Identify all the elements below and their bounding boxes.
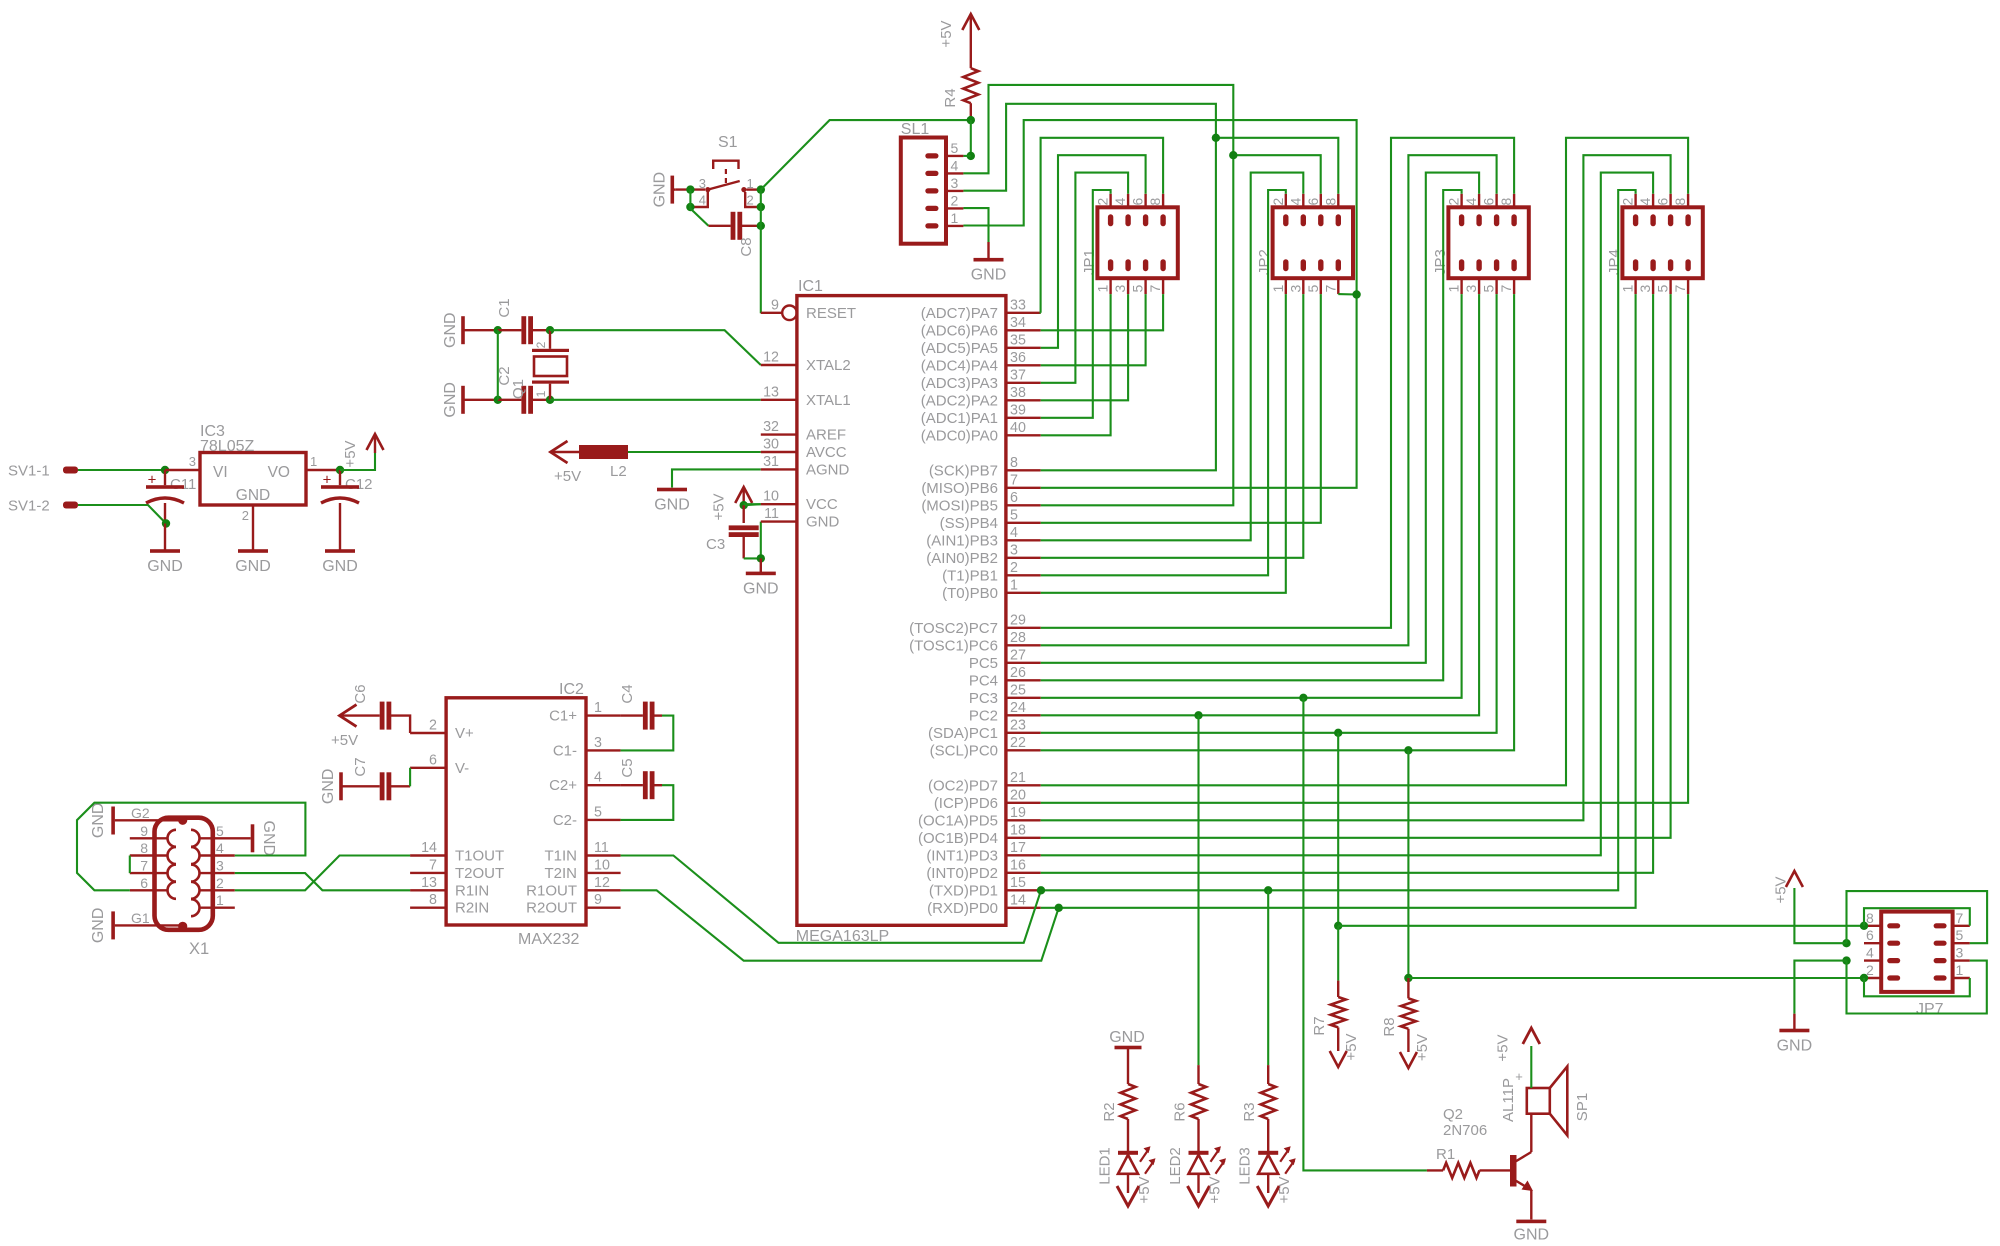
svg-text:(MISO)PB6: (MISO)PB6 <box>921 480 998 497</box>
wire C5 to C2- <box>621 785 674 820</box>
svg-text:(RXD)PD0: (RXD)PD0 <box>927 900 998 917</box>
node crystal top junction <box>546 326 554 334</box>
ground for C12 <box>325 549 355 553</box>
IC1 left pin leads <box>761 312 782 314</box>
svg-text:GND: GND <box>1514 1226 1550 1243</box>
svg-text:+5V: +5V <box>1772 876 1789 903</box>
node MISO junction <box>1352 290 1360 298</box>
resistor R4 <box>963 68 978 103</box>
wire PA7 to JP1 pin8 <box>1041 138 1164 313</box>
svg-text:29: 29 <box>1010 612 1026 628</box>
svg-text:+5V: +5V <box>938 20 955 47</box>
svg-text:GND: GND <box>90 803 107 839</box>
svg-text:2: 2 <box>1010 560 1018 576</box>
ground for G1 <box>111 911 115 939</box>
node S1 pin3 junction <box>686 185 694 193</box>
node SCK junction <box>1212 134 1220 142</box>
svg-text:(ADC4)PA4: (ADC4)PA4 <box>921 357 998 374</box>
node PC2 to LED2 junction <box>1194 711 1202 719</box>
svg-text:R2IN: R2IN <box>455 900 489 917</box>
wire L2 to AVCC <box>628 451 761 453</box>
wire PD4 to JP4 pin5 <box>1041 294 1671 838</box>
svg-text:4: 4 <box>216 840 224 856</box>
svg-text:C7: C7 <box>352 757 369 776</box>
node crystal-C2 left junction <box>494 396 502 404</box>
wire SL1 pin2 to ground <box>963 208 988 242</box>
svg-text:7: 7 <box>1498 285 1514 293</box>
wire SCK PB7 riser to JP2 pin8 <box>1041 138 1216 471</box>
svg-text:24: 24 <box>1010 700 1026 716</box>
svg-text:5: 5 <box>1481 285 1497 293</box>
svg-text:PC2: PC2 <box>969 707 998 724</box>
svg-text:1: 1 <box>216 892 224 908</box>
svg-text:(OC2)PD7: (OC2)PD7 <box>928 777 998 794</box>
wire PC1 to JP3 pin5 <box>1041 294 1497 733</box>
voltage regulator IC3 78L05Z <box>200 453 306 506</box>
svg-text:14: 14 <box>421 840 437 856</box>
wire PC3 to JP3 pin1 <box>1041 294 1462 698</box>
wire JP7 pin2-pin1 loop <box>1864 978 1970 996</box>
svg-text:T1OUT: T1OUT <box>455 848 504 865</box>
svg-text:5: 5 <box>1305 285 1321 293</box>
connector X1 DB9 <box>155 818 213 930</box>
svg-text:R1IN: R1IN <box>455 882 489 899</box>
wire SL1 pin5 stub <box>963 155 970 157</box>
svg-text:+5V: +5V <box>1136 1176 1153 1203</box>
svg-text:XTAL2: XTAL2 <box>806 357 851 374</box>
+5V arrow below R7 <box>1330 1051 1347 1067</box>
svg-text:(AIN1)PB3: (AIN1)PB3 <box>926 532 998 549</box>
wire JP7 pin6-pin5 loop <box>1847 891 1988 943</box>
svg-text:GND: GND <box>442 382 459 418</box>
svg-text:LED2: LED2 <box>1167 1147 1184 1185</box>
svg-text:23: 23 <box>1010 717 1026 733</box>
microcontroller IC1 MEGA163LP <box>797 296 1006 926</box>
svg-text:5: 5 <box>1010 507 1018 523</box>
wire XTAL2 net <box>550 330 761 365</box>
node PC1 to R7 junction <box>1334 729 1342 737</box>
svg-text:AVCC: AVCC <box>806 444 847 461</box>
wire PC0 down to R8 <box>1407 750 1409 978</box>
level shifter IC2 MAX232 <box>446 698 586 925</box>
svg-text:2: 2 <box>242 508 249 523</box>
svg-text:G2: G2 <box>131 805 150 821</box>
svg-text:6: 6 <box>429 752 437 768</box>
svg-text:T1IN: T1IN <box>544 848 577 865</box>
+5V arrow at JP7 <box>1794 888 1846 943</box>
svg-text:2: 2 <box>747 193 754 208</box>
svg-text:T2IN: T2IN <box>544 865 577 882</box>
node C11 bottom junction <box>162 519 170 527</box>
wire R4 to SL1 pin 5 <box>970 120 972 156</box>
svg-text:4: 4 <box>1637 198 1653 206</box>
svg-text:37: 37 <box>1010 367 1026 383</box>
connector pad SV1-1 <box>63 467 78 474</box>
svg-text:SL1: SL1 <box>901 121 930 138</box>
svg-text:4: 4 <box>1010 525 1018 541</box>
svg-text:+5V: +5V <box>554 468 581 485</box>
svg-text:(T1)PB1: (T1)PB1 <box>942 567 998 584</box>
svg-text:R1OUT: R1OUT <box>526 882 577 899</box>
svg-text:VO: VO <box>268 464 290 481</box>
svg-text:GND: GND <box>971 267 1007 284</box>
svg-text:+5V: +5V <box>342 440 359 467</box>
+5V supply arrow above R4 <box>970 14 972 68</box>
X1 G1 mounting lead <box>115 924 183 926</box>
svg-text:7: 7 <box>1147 285 1163 293</box>
svg-text:3: 3 <box>1956 945 1964 961</box>
svg-text:5: 5 <box>594 804 602 820</box>
svg-text:2: 2 <box>429 718 437 734</box>
svg-text:C4: C4 <box>619 684 636 703</box>
wire PD0 RXD to JP4 pin1 <box>1041 294 1636 908</box>
ground for JP7 <box>1793 1014 1795 1031</box>
svg-text:6: 6 <box>1866 927 1874 943</box>
+5V supply arrow at regulator output <box>374 434 376 453</box>
svg-text:+5V: +5V <box>711 493 728 520</box>
svg-text:20: 20 <box>1010 787 1026 803</box>
svg-text:GND: GND <box>236 487 270 504</box>
wire PB1 to JP2 pin2 <box>1041 190 1286 575</box>
svg-text:6: 6 <box>1481 198 1497 206</box>
wire AGND to ground <box>672 469 761 487</box>
svg-text:(OC1B)PD4: (OC1B)PD4 <box>918 830 998 847</box>
svg-text:3: 3 <box>594 735 602 751</box>
svg-text:SV1-2: SV1-2 <box>8 498 50 515</box>
node +5V output junction <box>336 466 344 474</box>
wire PA4 to JP1 pin5 <box>1041 294 1146 365</box>
svg-text:C1+: C1+ <box>549 708 577 725</box>
svg-text:36: 36 <box>1010 350 1026 366</box>
node TXD to LED3 junction <box>1264 886 1272 894</box>
node PC0 to R8 junction <box>1404 746 1412 754</box>
wire PC5 to JP3 pin4 <box>1041 173 1479 663</box>
wire TXD to LED3 <box>1267 890 1269 1065</box>
wire SL1 pin1 net (MISO) <box>963 120 1356 294</box>
wire PA2 to JP1 pin3 <box>1041 294 1128 400</box>
svg-text:(ADC1)PA1: (ADC1)PA1 <box>921 410 998 427</box>
wire PA6 to JP1 pin7 <box>1041 294 1163 330</box>
wire X1 pin2 to T1OUT crossover <box>235 856 410 891</box>
svg-text:(ADC7)PA7: (ADC7)PA7 <box>921 305 998 322</box>
wire PB0 to JP2 pin1 <box>1041 294 1286 593</box>
wire PC2 to LED2 <box>1197 715 1199 1065</box>
svg-text:28: 28 <box>1010 630 1026 646</box>
wire PC6 to JP3 pin6 <box>1041 155 1497 645</box>
X1 G2 mounting lead <box>115 819 183 821</box>
capacitor C8 <box>731 212 736 240</box>
svg-text:V+: V+ <box>455 725 474 742</box>
svg-text:11: 11 <box>594 840 609 856</box>
svg-text:1: 1 <box>1446 285 1462 293</box>
svg-text:IC1: IC1 <box>798 278 823 295</box>
connector JP4 <box>1622 207 1702 278</box>
svg-text:3: 3 <box>1637 285 1653 293</box>
svg-text:JP1: JP1 <box>1081 249 1098 275</box>
wire S1 3-4 link <box>689 190 691 207</box>
svg-text:1: 1 <box>594 700 602 716</box>
ground for X1 pin5 <box>251 824 255 852</box>
wire XTAL1 net <box>550 399 761 401</box>
IC1 right pin leads <box>1006 312 1041 314</box>
svg-text:19: 19 <box>1010 805 1026 821</box>
svg-text:R2OUT: R2OUT <box>526 900 577 917</box>
svg-text:1: 1 <box>534 390 548 397</box>
wire SV1-2 to GND node <box>78 505 166 524</box>
svg-text:33: 33 <box>1010 297 1026 313</box>
wire PB4 to JP2 pin5 <box>1041 294 1321 523</box>
IC2 right pin leads <box>586 714 621 716</box>
node SL1 pin5 junction <box>967 152 975 160</box>
svg-text:8: 8 <box>1672 198 1688 206</box>
svg-text:(ADC6)PA6: (ADC6)PA6 <box>921 322 998 339</box>
wire RESET net diagonal to +5V rail <box>761 120 971 190</box>
node R4 bottom junction <box>967 116 975 124</box>
svg-text:GND: GND <box>235 558 271 575</box>
svg-text:GND: GND <box>806 514 840 531</box>
svg-text:(ADC5)PA5: (ADC5)PA5 <box>921 340 998 357</box>
wire PA1 to JP1 pin2 <box>1041 190 1111 418</box>
svg-text:(SCL)PC0: (SCL)PC0 <box>930 742 998 759</box>
svg-text:LED3: LED3 <box>1237 1147 1254 1185</box>
svg-text:6: 6 <box>1130 198 1146 206</box>
wire S1 pin2 to C8 to RESET <box>760 207 762 226</box>
svg-text:4: 4 <box>594 770 602 786</box>
svg-text:2N706: 2N706 <box>1443 1122 1487 1139</box>
svg-text:6: 6 <box>140 875 148 891</box>
svg-text:Q2: Q2 <box>1443 1106 1463 1123</box>
ground for S1 <box>672 188 676 190</box>
ground for C3 <box>760 558 762 573</box>
node S1 pin1 junction <box>757 185 765 193</box>
svg-text:AREF: AREF <box>806 427 846 444</box>
svg-text:(ADC2)PA2: (ADC2)PA2 <box>921 392 998 409</box>
connector pad SV1-2 <box>63 502 78 509</box>
svg-text:GND: GND <box>320 769 337 805</box>
svg-text:RESET: RESET <box>806 305 856 322</box>
svg-text:6: 6 <box>1655 198 1671 206</box>
svg-text:1: 1 <box>951 210 959 226</box>
svg-text:PC4: PC4 <box>969 672 998 689</box>
wire SL1 pin4 net (MOSI) <box>963 85 1233 173</box>
svg-text:C8: C8 <box>738 237 755 256</box>
wire X1 pin4-pin6 loop <box>77 803 305 891</box>
svg-text:R6: R6 <box>1171 1102 1188 1121</box>
svg-text:38: 38 <box>1010 385 1026 401</box>
svg-text:1: 1 <box>1620 285 1636 293</box>
wire JP7 pin2 line <box>1408 977 1864 979</box>
+5V supply arrow for VCC <box>743 487 745 505</box>
connector JP7 <box>1881 912 1952 992</box>
svg-text:(INT1)PD3: (INT1)PD3 <box>926 847 998 864</box>
node crystal bottom junction <box>546 396 554 404</box>
svg-text:AGND: AGND <box>806 461 850 478</box>
svg-text:C11: C11 <box>170 476 196 493</box>
svg-text:2: 2 <box>951 192 959 208</box>
svg-text:17: 17 <box>1010 840 1026 856</box>
svg-text:MAX232: MAX232 <box>518 931 579 948</box>
svg-text:XTAL1: XTAL1 <box>806 392 851 409</box>
svg-text:2: 2 <box>216 875 224 891</box>
svg-text:(SDA)PC1: (SDA)PC1 <box>928 725 998 742</box>
svg-text:S1: S1 <box>718 134 738 151</box>
svg-text:C2+: C2+ <box>549 777 577 794</box>
svg-text:R8: R8 <box>1381 1017 1398 1036</box>
wire +5V to arrow <box>340 453 375 470</box>
svg-text:JP3: JP3 <box>1432 249 1449 275</box>
node VIN junction <box>161 466 169 474</box>
svg-text:39: 39 <box>1010 402 1026 418</box>
svg-text:(INT0)PD2: (INT0)PD2 <box>926 865 998 882</box>
wire PD6 to JP4 pin7 <box>1041 294 1688 803</box>
svg-text:GND: GND <box>322 558 358 575</box>
svg-text:5: 5 <box>1655 285 1671 293</box>
svg-text:R4: R4 <box>942 88 959 107</box>
wire JP7 pin4-pin3 loop <box>1847 961 1987 1014</box>
svg-text:2: 2 <box>1620 198 1636 206</box>
svg-text:+5V: +5V <box>1207 1176 1224 1203</box>
wire PD3 to JP4 pin4 <box>1041 173 1653 856</box>
svg-text:8: 8 <box>140 840 148 856</box>
svg-text:6: 6 <box>1305 198 1321 206</box>
IC3 pin 1 lead <box>306 469 340 471</box>
ground for C1 <box>463 329 498 331</box>
svg-text:78L05Z: 78L05Z <box>200 438 254 455</box>
connector JP1 <box>1097 207 1177 278</box>
svg-text:2: 2 <box>1270 198 1286 206</box>
wire PD2 to JP4 pin3 <box>1041 294 1653 873</box>
svg-text:C6: C6 <box>352 684 369 703</box>
svg-text:13: 13 <box>421 875 437 891</box>
svg-text:JP2: JP2 <box>1256 249 1273 275</box>
svg-text:C12: C12 <box>345 476 373 493</box>
svg-text:1: 1 <box>1956 962 1964 978</box>
wire JP7 pin8-pin7 loop <box>1864 908 1970 926</box>
svg-text:26: 26 <box>1010 665 1026 681</box>
wire PD7 to JP4 pin8 <box>1041 138 1688 786</box>
svg-text:9: 9 <box>594 892 602 908</box>
svg-text:R2: R2 <box>1101 1102 1118 1121</box>
svg-text:(SS)PB4: (SS)PB4 <box>940 515 998 532</box>
IC3 pin 3 lead <box>165 469 200 471</box>
IC2 left pin leads <box>410 732 446 734</box>
resistor R8 <box>1407 978 1409 998</box>
svg-text:4: 4 <box>1866 945 1874 961</box>
svg-text:GND: GND <box>1109 1029 1145 1046</box>
svg-text:GND: GND <box>260 821 277 857</box>
wire X1 pin7-8 link <box>129 856 131 874</box>
wire PB2 to JP2 pin3 <box>1041 294 1304 558</box>
svg-text:10: 10 <box>594 857 610 873</box>
svg-text:8: 8 <box>1498 198 1514 206</box>
wire PD5 to JP4 pin6 <box>1041 155 1671 820</box>
ground for Q2 emitter <box>1516 1220 1546 1224</box>
svg-text:V-: V- <box>455 760 469 777</box>
ground for G2 <box>111 807 115 835</box>
svg-text:6: 6 <box>1010 490 1018 506</box>
svg-text:7: 7 <box>429 857 437 873</box>
svg-text:3: 3 <box>189 454 196 469</box>
wire PA3 to JP1 pin4 <box>1041 173 1128 383</box>
svg-text:31: 31 <box>763 454 779 470</box>
svg-text:7: 7 <box>1956 910 1964 926</box>
inductor L2 <box>551 451 580 453</box>
node TXD junction <box>1037 886 1045 894</box>
svg-text:L2: L2 <box>610 463 627 480</box>
wire JP7 pin8 line <box>1338 925 1864 927</box>
svg-text:AL11P: AL11P <box>1500 1078 1517 1122</box>
wire PC4 to JP3 pin2 <box>1041 190 1462 680</box>
svg-text:18: 18 <box>1010 822 1026 838</box>
svg-text:(OC1A)PD5: (OC1A)PD5 <box>918 812 998 829</box>
svg-text:+5V: +5V <box>1276 1176 1293 1203</box>
svg-text:(TXD)PD1: (TXD)PD1 <box>929 882 998 899</box>
wire GND pin to C3 <box>744 522 761 559</box>
connector JP3 <box>1448 207 1528 278</box>
svg-text:C2-: C2- <box>553 812 577 829</box>
node VCC junction <box>740 501 748 509</box>
svg-text:8: 8 <box>1322 198 1338 206</box>
svg-text:IC2: IC2 <box>559 681 584 698</box>
wire PB3 to JP2 pin4 <box>1041 173 1304 541</box>
wire C1-C2 ground bus <box>497 330 499 400</box>
svg-text:SV1-1: SV1-1 <box>8 463 50 480</box>
svg-text:LED1: LED1 <box>1097 1147 1114 1185</box>
node S1 pin4 junction <box>686 203 694 211</box>
svg-text:7: 7 <box>1010 472 1018 488</box>
ground for C11 <box>164 524 166 552</box>
node crystal-C1 left junction <box>494 326 502 334</box>
wire PC3 to R1 <box>1303 698 1427 1171</box>
wire SV1-1 to IC3 VI <box>78 469 165 471</box>
wire T1IN to TXD <box>621 856 1041 943</box>
svg-text:3: 3 <box>1287 285 1303 293</box>
svg-text:5: 5 <box>216 823 224 839</box>
svg-text:GND: GND <box>1777 1038 1813 1055</box>
svg-text:GND: GND <box>743 580 779 597</box>
LED2 with resistor R6 <box>1197 1065 1199 1084</box>
svg-text:JP4: JP4 <box>1606 249 1623 275</box>
svg-text:22: 22 <box>1010 735 1026 751</box>
wire PA0 to JP1 pin1 <box>1041 294 1111 435</box>
svg-text:32: 32 <box>763 419 779 435</box>
svg-text:5: 5 <box>1956 927 1964 943</box>
wire S1 1-2 link <box>760 190 762 207</box>
svg-text:30: 30 <box>763 437 779 453</box>
svg-text:4: 4 <box>699 193 706 208</box>
svg-text:35: 35 <box>1010 332 1026 348</box>
svg-text:T2OUT: T2OUT <box>455 865 504 882</box>
svg-text:1: 1 <box>1095 285 1111 293</box>
svg-text:5: 5 <box>1130 285 1146 293</box>
svg-text:40: 40 <box>1010 420 1026 436</box>
svg-text:7: 7 <box>1672 285 1688 293</box>
svg-text:VI: VI <box>213 464 228 481</box>
wire PC7 to JP3 pin8 <box>1041 138 1514 628</box>
svg-text:3: 3 <box>1463 285 1479 293</box>
ground for SL1 <box>987 242 989 260</box>
wire JP2 pin7 jog <box>1338 293 1356 295</box>
svg-text:21: 21 <box>1010 770 1026 786</box>
svg-text:2: 2 <box>1446 198 1462 206</box>
connector JP2 <box>1273 207 1353 278</box>
node PC3 to R1 junction <box>1299 694 1307 702</box>
svg-text:GND: GND <box>654 497 690 514</box>
svg-text:1: 1 <box>1270 285 1286 293</box>
wire PC0 to JP3 pin7 <box>1041 294 1514 750</box>
svg-text:GND: GND <box>147 558 183 575</box>
svg-text:9: 9 <box>771 297 779 313</box>
